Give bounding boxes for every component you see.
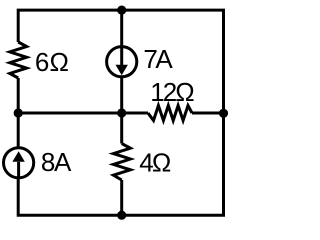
svg-text:4Ω: 4Ω <box>139 147 171 177</box>
svg-text:8A: 8A <box>41 147 72 177</box>
svg-text:6Ω: 6Ω <box>35 47 69 77</box>
svg-text:7A: 7A <box>143 44 173 74</box>
svg-text:12Ω: 12Ω <box>150 77 195 107</box>
